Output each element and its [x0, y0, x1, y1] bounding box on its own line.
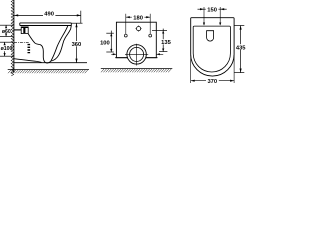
bowl back and trap outline — [28, 34, 51, 63]
cistern rectangle — [116, 22, 156, 58]
bowl inner (seat) outline — [193, 26, 230, 72]
drain flange inner circle — [130, 47, 144, 61]
bolt hole right — [149, 34, 152, 37]
water inlet pipe — [14, 29, 21, 31]
dimension 490 label — [43, 11, 55, 18]
drain hidden line (dashed vertical) — [27, 44, 30, 53]
seat slab bottom line — [20, 25, 72, 27]
drain centerline (dash-dot) — [14, 42, 29, 44]
drain flange outer circle — [127, 45, 146, 64]
dimension 435 — [234, 26, 244, 73]
seat slab top line — [20, 22, 72, 24]
drain centerline vertical — [136, 44, 138, 66]
inlet valve dark core — [23, 28, 25, 34]
bolt extension line right — [149, 14, 151, 34]
top inspection hole — [137, 27, 141, 31]
dimension 490 line — [14, 14, 81, 16]
fixing hole centerline right — [219, 7, 221, 26]
dimension 135 — [152, 29, 167, 52]
floor line middle view — [101, 68, 173, 70]
wall hatching — [11, 0, 14, 76]
svg-text:100: 100 — [100, 40, 110, 46]
dimension 360 label — [71, 41, 83, 48]
inlet valve top bar — [21, 27, 28, 28]
svg-text:370: 370 — [207, 79, 217, 85]
dimension 150 label — [206, 7, 219, 14]
dimension 180 line — [126, 16, 150, 18]
dimension 150 line — [198, 8, 227, 10]
floor hatching left view — [8, 70, 88, 73]
dimension 370 extension ticks — [190, 55, 192, 83]
side leader arrow right — [156, 53, 163, 55]
svg-text:ø100: ø100 — [1, 46, 13, 52]
dimension 370 label — [206, 78, 219, 85]
svg-text:180: 180 — [133, 16, 143, 22]
dimension ø60 ticks — [0, 25, 13, 36]
bowl outer outline — [191, 18, 234, 76]
flush opening — [207, 31, 214, 41]
floor hatching — [101, 69, 171, 72]
dimension 135 label — [160, 39, 171, 46]
drain centerline horizontal — [125, 53, 148, 55]
svg-text:360: 360 — [72, 42, 82, 48]
dimension 360 line — [75, 23, 77, 62]
svg-text:490: 490 — [44, 12, 54, 18]
dimension 370 line — [191, 80, 234, 82]
seat slab right end — [70, 23, 72, 26]
bowl underside line — [14, 59, 42, 63]
bowl inner front line — [51, 26, 68, 61]
cistern bottom flange line — [115, 57, 157, 59]
dimension ø100 ticks — [0, 42, 14, 56]
floor slab line left view — [8, 69, 89, 71]
floor line left view — [14, 62, 87, 64]
dimension 100 — [106, 31, 114, 52]
inlet valve box — [21, 27, 28, 34]
svg-text:135: 135 — [161, 40, 171, 46]
bowl front outline — [51, 26, 71, 62]
svg-text:ø60: ø60 — [2, 29, 11, 35]
seat slab left end — [19, 23, 21, 26]
svg-text:435: 435 — [236, 46, 246, 52]
extension line right of 490 — [80, 11, 82, 24]
side leader arrow left — [111, 53, 116, 55]
dimension 360 top tick — [71, 22, 82, 24]
fixing hole centerline left — [203, 7, 205, 26]
dimension 180 label — [132, 15, 145, 22]
svg-text:150: 150 — [207, 8, 217, 14]
bolt hole left — [124, 34, 127, 37]
wall line — [13, 0, 15, 73]
bolt extension line left — [125, 14, 127, 34]
dimension 100 label — [99, 40, 110, 47]
dimension 435 label — [236, 44, 247, 52]
